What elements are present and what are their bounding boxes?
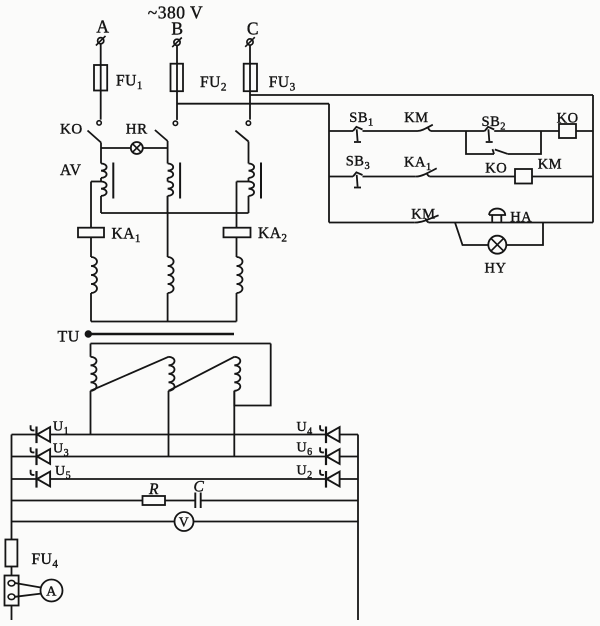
svg-text:A: A: [96, 17, 109, 37]
svg-text:KO: KO: [485, 161, 507, 177]
svg-text:KO: KO: [557, 111, 579, 127]
svg-text:KM: KM: [411, 207, 435, 223]
svg-text:R: R: [148, 481, 159, 498]
svg-text:HA: HA: [510, 210, 532, 226]
svg-text:A: A: [46, 585, 57, 600]
svg-text:KM: KM: [404, 110, 428, 126]
svg-text:KM: KM: [538, 157, 562, 173]
svg-text:TU: TU: [58, 329, 80, 346]
svg-text:C: C: [194, 479, 205, 496]
svg-text:KO: KO: [60, 122, 83, 138]
svg-text:AV: AV: [60, 162, 82, 179]
svg-text:HY: HY: [485, 261, 507, 277]
svg-text:V: V: [179, 515, 189, 530]
svg-text:B: B: [171, 19, 183, 39]
svg-text:C: C: [247, 19, 259, 39]
svg-text:HR: HR: [126, 122, 148, 138]
